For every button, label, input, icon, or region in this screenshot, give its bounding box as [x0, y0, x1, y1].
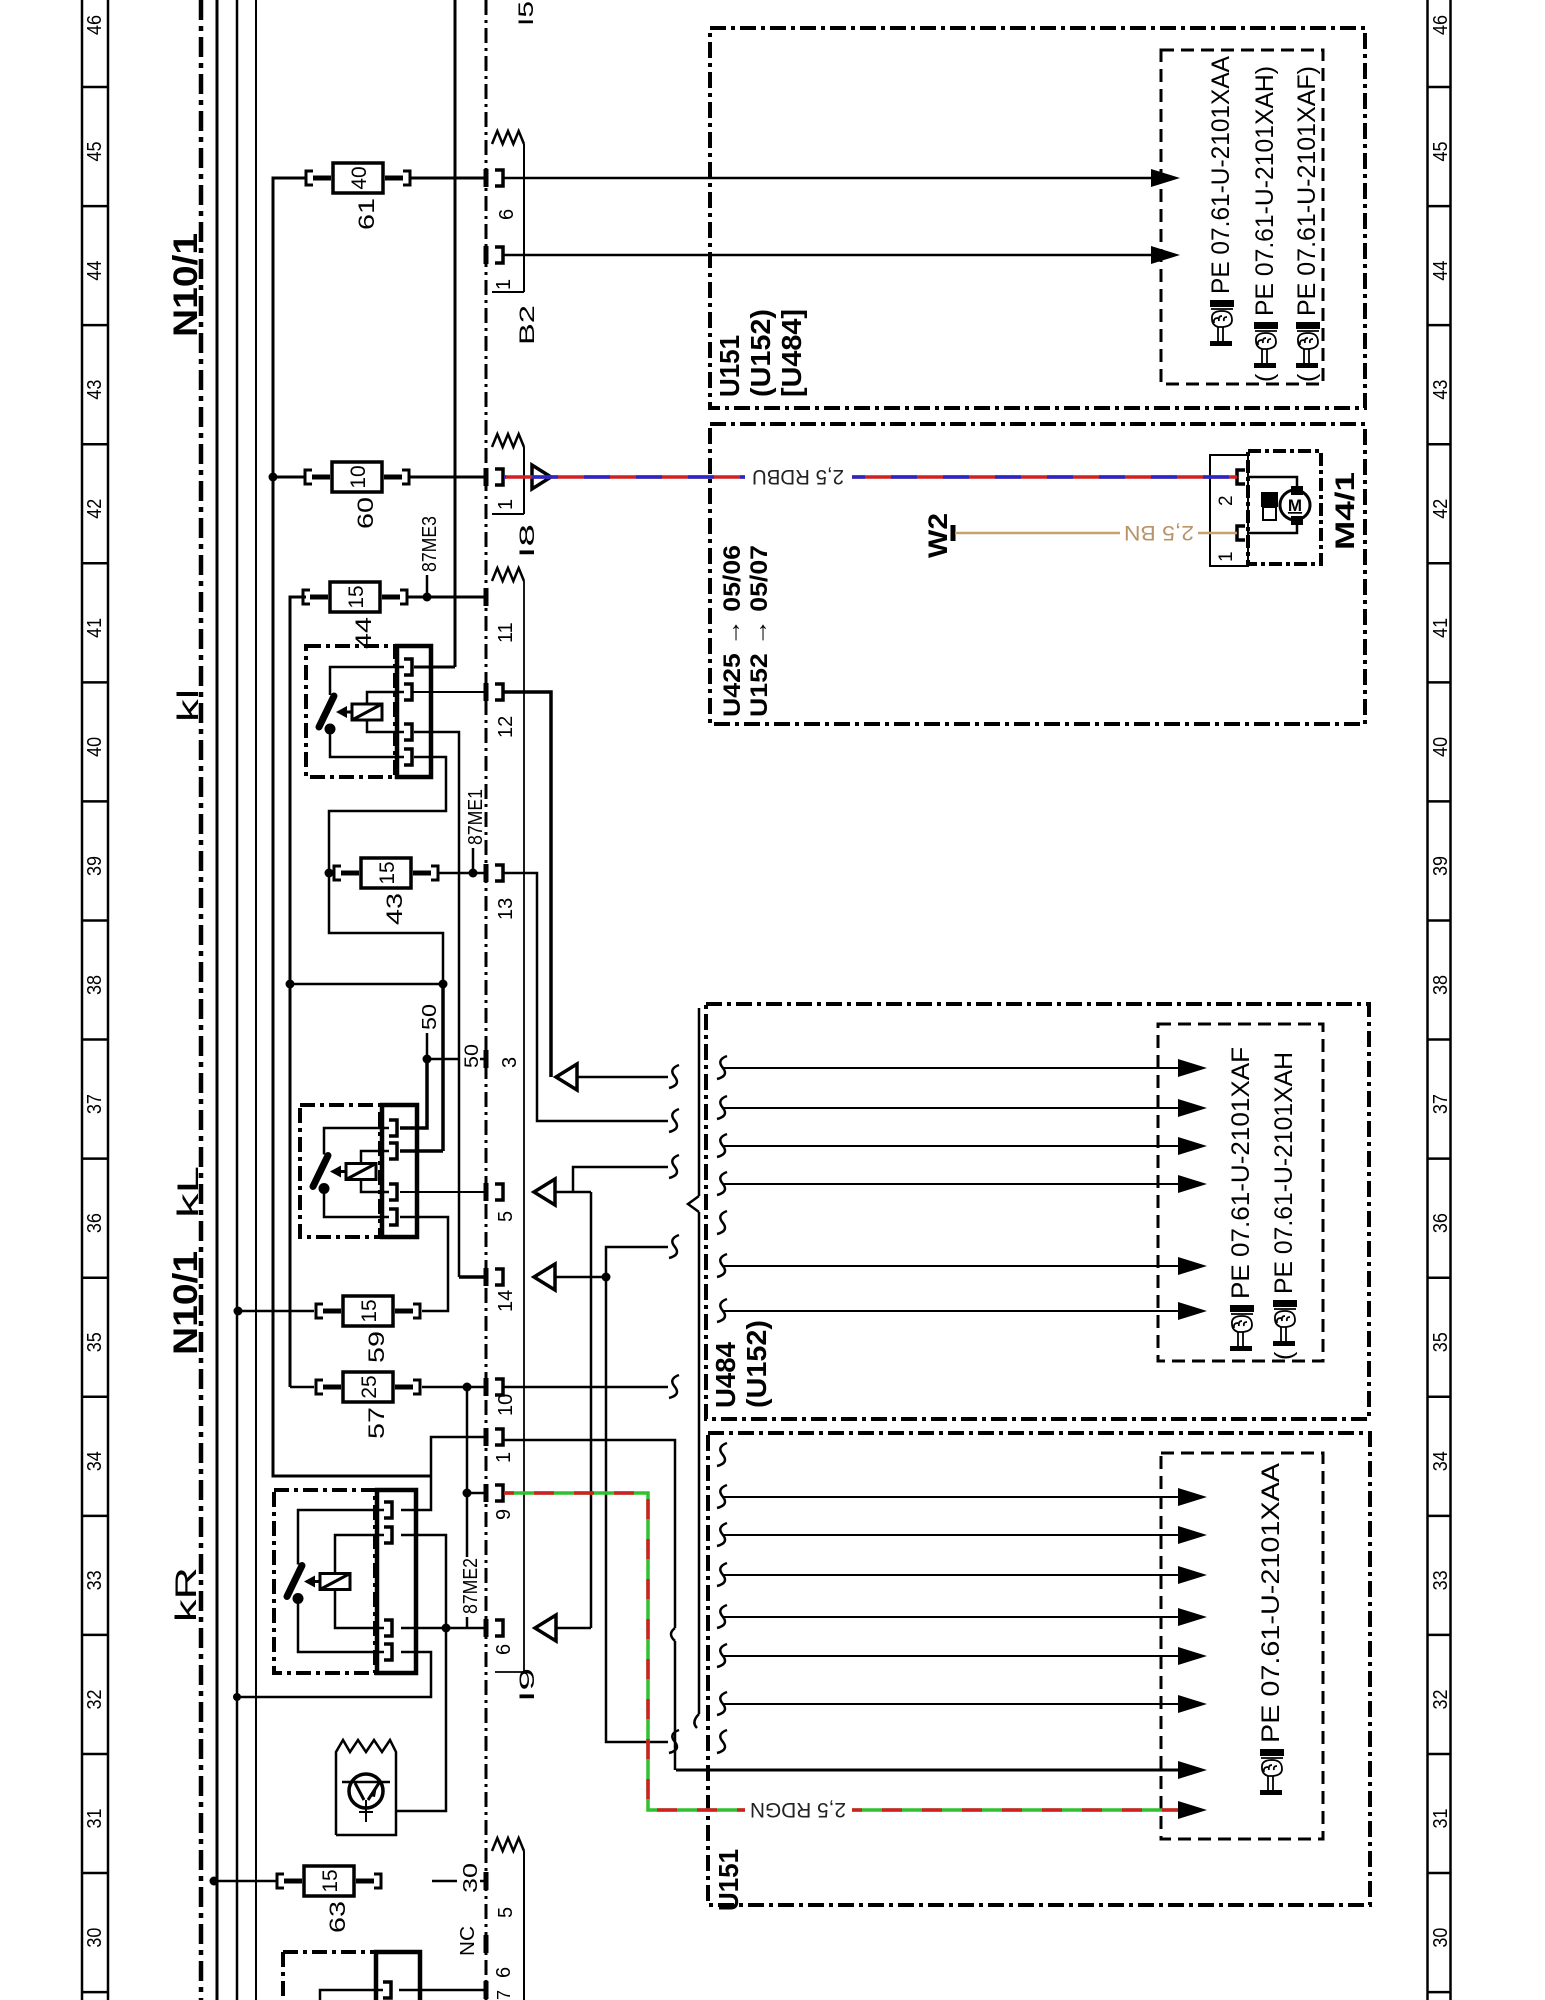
junction: [423, 1055, 432, 1064]
svg-text:10: 10: [347, 465, 370, 488]
svg-text:6: 6: [493, 1644, 515, 1655]
svg-text:PE 07.61-U-2101XAA: PE 07.61-U-2101XAA: [1207, 56, 1235, 294]
svg-text:I5: I5: [515, 1, 538, 26]
wire relay kL pin3 to I5 pin 5: [400, 1191, 486, 1193]
relay kR dash-dot box: [274, 1490, 375, 1673]
svg-text:15: 15: [319, 1869, 342, 1892]
svg-text:U484: U484: [710, 1342, 741, 1408]
relay kl coil wire to pin2: [367, 692, 404, 704]
connector I5/I9 bracket line: [523, 581, 525, 1672]
junction 87ME1: [469, 869, 478, 878]
svg-text:2,5 RDBU: 2,5 RDBU: [752, 465, 844, 488]
svg-text:14: 14: [495, 1290, 517, 1312]
svg-text:U151: U151: [713, 1849, 744, 1911]
svg-text:15: 15: [358, 1299, 381, 1322]
svg-text:M4/1: M4/1: [1330, 472, 1360, 550]
svg-text:44: 44: [84, 261, 106, 281]
wire fuse61 to B2 pin 6: [410, 177, 486, 180]
svg-text:30: 30: [84, 1928, 106, 1948]
bus wire 30 (left): [216, 0, 219, 2000]
relay kl switch pivot: [325, 724, 336, 735]
fuse 44 value 15: [303, 582, 407, 612]
relay kL pin 1: [389, 1120, 397, 1136]
wire fuse43 to I5 pin 13: [438, 872, 486, 875]
relay kl coil: [352, 704, 382, 720]
I9 pin 1: [484, 1428, 489, 1446]
wire relay kl pin2 to I5 pin 12: [413, 691, 486, 693]
svg-text:45: 45: [1430, 142, 1452, 162]
I5 pin 5: [484, 1183, 489, 1201]
svg-text:kR: kR: [170, 1567, 203, 1622]
wire kR drop to transistor: [396, 1628, 446, 1811]
svg-text:1: 1: [493, 1452, 515, 1463]
svg-text:PE 07.61-U-2101XAF: PE 07.61-U-2101XAF: [1227, 1047, 1255, 1299]
bottom connector zigzag: [492, 1838, 524, 1851]
wire to PE (U151) at y=1770 fed by harness trunk A: [676, 1769, 1180, 1772]
svg-text:kL: kL: [172, 1166, 205, 1218]
bus wire (right): [255, 0, 257, 2000]
PE reference box (U151) dashed border: [1161, 1453, 1323, 1839]
relay kR coil: [320, 1574, 350, 1590]
svg-text:35: 35: [1430, 1332, 1452, 1352]
svg-text:NC: NC: [457, 1926, 479, 1956]
net 87ME2 lower: [466, 1493, 469, 1557]
motor M4/1 circle: [1280, 490, 1310, 520]
harness trunk A lower: [674, 1641, 677, 1770]
wire to PE (U484) at y=1266: [722, 1265, 1180, 1267]
svg-text:6: 6: [493, 1967, 515, 1978]
I8 pin 1: [484, 468, 489, 486]
wire pin13 onward: [504, 873, 668, 1121]
relay kl pin 1: [404, 659, 412, 675]
svg-text:33: 33: [1430, 1570, 1452, 1590]
relay kl pin 3: [404, 724, 412, 740]
junction: [234, 1307, 243, 1316]
svg-text:M: M: [1288, 496, 1302, 515]
junction: [463, 1489, 472, 1498]
wire 2,5 RDGN: [504, 1493, 745, 1810]
svg-text:38: 38: [1430, 975, 1452, 995]
relay kl switch blade: [319, 696, 334, 727]
wire to PE (U151) at y=1656: [722, 1655, 1180, 1657]
relay kR switch pivot: [293, 1593, 304, 1604]
wire fuse60 left: [273, 476, 305, 479]
connector I8 bracket line: [523, 447, 525, 514]
vertical wire battery feed to relay kl pin1: [454, 0, 457, 667]
wire pin14 onward: [555, 1276, 606, 1279]
svg-text:41: 41: [84, 618, 106, 638]
svg-text:38: 38: [84, 975, 106, 995]
relay kL housing: [382, 1105, 417, 1237]
relay kR pin 1: [384, 1502, 392, 1518]
relay (bottom, cut off) housing: [376, 1952, 420, 2000]
wire to PE (U151) at y=1704: [722, 1703, 1180, 1705]
wire B2 pin1 to PE arrow: [504, 254, 1151, 257]
PE 07.61-U-2101XAH reference (top): [1251, 66, 1279, 382]
I5 pin 14: [484, 1268, 489, 1286]
svg-text:5: 5: [495, 1211, 517, 1222]
svg-text:59: 59: [364, 1331, 389, 1363]
svg-text:kl: kl: [172, 689, 205, 722]
motor M4/1 internal wires: [1247, 477, 1297, 490]
wire 50 to I5 pin 3: [427, 1058, 458, 1061]
svg-text:46: 46: [84, 15, 106, 35]
svg-text:39: 39: [84, 856, 106, 876]
svg-text:43: 43: [84, 380, 106, 400]
box U425/U152 dash-dot border: [710, 424, 1365, 724]
relay kL contact wire: [324, 1128, 389, 1155]
M4/1 pin 2: [1237, 470, 1245, 484]
harness trunk B: [698, 1008, 701, 1196]
svg-text:57: 57: [364, 1407, 389, 1439]
net stub 50: [426, 1033, 429, 1059]
box U151 (bottom) dash-dot border: [708, 1433, 1370, 1905]
fuse 43 value 15: [334, 858, 438, 888]
svg-text:63: 63: [325, 1901, 350, 1933]
svg-text:2,5 BN: 2,5 BN: [1124, 521, 1194, 544]
wire pin5 onward: [555, 1191, 591, 1194]
wire to PE (U484) at y=1068: [722, 1067, 1180, 1069]
M4/1 pin 1: [1237, 526, 1245, 540]
relay kL switch blade: [313, 1156, 328, 1187]
wire pin10 to U484: [504, 1386, 668, 1389]
B2 pin 1: [484, 246, 489, 264]
branch to U484: [606, 1247, 668, 1277]
junction: [439, 980, 448, 989]
svg-text:PE 07.61-U-2101XAH: PE 07.61-U-2101XAH: [1270, 1052, 1298, 1294]
junction: [286, 980, 295, 989]
wire bottom relay to pin 7: [399, 1989, 486, 1992]
bus wire (middle): [236, 0, 239, 2000]
net stub 87ME3: [426, 575, 429, 597]
svg-text:13: 13: [495, 898, 517, 920]
svg-text:43: 43: [382, 893, 407, 925]
connector B2 bracket line: [523, 144, 525, 292]
svg-text:42: 42: [1430, 499, 1452, 519]
box U484 (U152) dash-dot border: [706, 1004, 1369, 1419]
transistor emitter stem: [365, 1800, 367, 1822]
svg-text:15: 15: [376, 861, 399, 884]
I5 pin 12: [484, 683, 489, 701]
pin 6 NC: [484, 1935, 489, 1953]
svg-text:25: 25: [358, 1375, 381, 1398]
lone harness hook U151 mid: [717, 1730, 727, 1753]
svg-text:N10/1: N10/1: [167, 233, 205, 337]
wire relay kR pin2 drop: [401, 1535, 446, 1628]
wire fuse59 left to bus: [238, 1310, 314, 1313]
relay kR contact wire: [298, 1510, 384, 1565]
wire relay kR pin4 to bus: [237, 1652, 431, 1697]
wire relay kL pin4 to fuse59: [400, 1217, 448, 1311]
connector I5 pins zigzag: [492, 568, 524, 581]
svg-text:43: 43: [1430, 380, 1452, 400]
relay (bottom) internal wire: [320, 1990, 383, 2000]
wire fuse43 loop down: [329, 873, 443, 984]
svg-text:U425 → 05/06: U425 → 05/06: [719, 545, 746, 717]
direction triangle: [556, 1064, 577, 1090]
connector rail I5 dash-dot line: [485, 0, 488, 2000]
relay kl contact wire: [330, 667, 404, 695]
I5 pin 13: [484, 864, 489, 882]
svg-text:32: 32: [84, 1689, 106, 1709]
wire relay kl pin1: [414, 666, 455, 669]
wire pin6 link: [556, 1627, 591, 1630]
relay kL coil wire to pin3: [361, 1180, 389, 1193]
I9 pin 9: [484, 1484, 489, 1502]
svg-text:37: 37: [84, 1094, 106, 1114]
fuse 61 value 40: [306, 163, 410, 193]
svg-text:PE 07.61-U-2101XAH): PE 07.61-U-2101XAH): [1251, 66, 1279, 316]
connector I8 zigzag: [492, 434, 524, 447]
svg-text:11: 11: [495, 622, 517, 643]
svg-text:12: 12: [495, 716, 517, 738]
svg-text:PE 07.61-U-2101XAF): PE 07.61-U-2101XAF): [1293, 66, 1321, 316]
fuse 57 value 25: [316, 1372, 420, 1402]
wire fuse57 to I5 pin 10: [422, 1386, 486, 1389]
wire kL feed from crossover: [441, 984, 445, 1151]
svg-text:W2: W2: [923, 513, 953, 558]
wire crossover: [290, 983, 443, 986]
wire to PE (U151) at y=1617: [722, 1616, 1180, 1618]
module N10/1 boundary dash-dot line: [199, 0, 204, 2000]
svg-text:(: (: [1293, 373, 1321, 382]
wire to I5 pin 14: [459, 1275, 486, 1279]
lone harness hook U484: [717, 1211, 727, 1234]
junction 87ME3: [423, 593, 432, 602]
svg-text:1: 1: [1216, 551, 1237, 562]
svg-text:I9: I9: [516, 1668, 539, 1702]
fuse 60 value 10: [305, 462, 409, 492]
svg-text:46: 46: [1430, 15, 1452, 35]
svg-text:60: 60: [353, 497, 378, 529]
junction: [269, 473, 278, 482]
PE 07.61-U-2101XAF reference (U484): [1227, 1047, 1255, 1351]
relay kl pin 2: [404, 684, 412, 700]
junction: [210, 1877, 219, 1886]
relay kL dash-dot box: [300, 1105, 380, 1237]
svg-text:37: 37: [1430, 1094, 1452, 1114]
transistor Q1 internals: [342, 1781, 390, 1784]
svg-text:(U152): (U152): [745, 309, 776, 397]
relay kR coil wire to pin3: [335, 1590, 384, 1629]
svg-text:(: (: [1251, 373, 1279, 382]
PE reference box (top) dashed border: [1161, 50, 1323, 384]
direction triangle: [532, 465, 551, 489]
ruler band left: [82, 0, 108, 2000]
wire to PE (U151) at y=1497: [722, 1496, 1180, 1498]
svg-text:3: 3: [499, 1057, 521, 1068]
svg-text:B2: B2: [516, 305, 539, 345]
wire fuse60 to I8 pin 1: [409, 476, 486, 479]
relay kR coil wire to pin2: [335, 1535, 384, 1574]
svg-text:41: 41: [1430, 618, 1452, 638]
motor M4/1 brush block: [1261, 492, 1278, 507]
svg-text:40: 40: [84, 737, 106, 757]
wire relay kL pin2: [400, 1149, 443, 1153]
relay kR pin 3: [384, 1620, 392, 1636]
relay kR switch blade: [287, 1566, 302, 1597]
wire from 87ME2 to pin 9: [467, 1492, 486, 1495]
junction: [325, 869, 334, 878]
junction: [602, 1273, 611, 1282]
svg-text:6: 6: [496, 209, 518, 220]
svg-text:U151: U151: [714, 335, 745, 397]
svg-text:50: 50: [462, 1044, 483, 1068]
relay kL pin 3: [389, 1184, 397, 1200]
wire to PE (U484) at y=1311: [722, 1310, 1180, 1312]
svg-text:40: 40: [348, 166, 371, 189]
relay kR housing: [377, 1490, 416, 1673]
wire fuse57 left: [290, 1386, 314, 1389]
direction triangle: [534, 1264, 555, 1290]
svg-text:N10/1: N10/1: [167, 1251, 205, 1355]
relay kl housing: [397, 646, 431, 777]
junction 87ME2 top: [463, 1383, 472, 1392]
svg-text:50: 50: [419, 1004, 441, 1030]
svg-text:(U152): (U152): [741, 1320, 772, 1408]
relay kL pivot wire to pin4: [324, 1189, 389, 1218]
direction triangle: [535, 1615, 556, 1641]
wire to PE (U151) at y=1535: [722, 1534, 1180, 1536]
wire fuse61 feed riser (terminal 30 feed): [273, 178, 431, 1476]
svg-text:30: 30: [460, 1863, 482, 1893]
direction triangle: [534, 1179, 555, 1205]
wire to PE (U484) at y=1108: [722, 1107, 1180, 1109]
branch to U484: [573, 1167, 668, 1192]
pin 5 (30): [484, 1872, 489, 1890]
transistor Q1 circle: [349, 1774, 383, 1808]
svg-text:PE 07.61-U-2101XAA: PE 07.61-U-2101XAA: [1257, 1463, 1285, 1743]
svg-text:87ME2: 87ME2: [460, 1558, 482, 1614]
bottom connector bracket line: [523, 1851, 525, 2000]
wire relay kR pin3 to pin 6: [401, 1627, 486, 1630]
relay kR coil arrow: [313, 1580, 320, 1583]
svg-text:30: 30: [1430, 1928, 1452, 1948]
motor M4/1 dash-dot box: [1248, 451, 1321, 564]
fuse 59 value 15: [316, 1296, 420, 1326]
svg-text:31: 31: [1430, 1809, 1452, 1829]
svg-text:39: 39: [1430, 856, 1452, 876]
connector B2 zigzag: [492, 131, 524, 144]
svg-text:61: 61: [354, 198, 379, 230]
relay kl pivot wire to pin4: [330, 729, 404, 757]
svg-text:5: 5: [495, 1907, 517, 1918]
wire fuse43 left: [329, 872, 334, 875]
svg-text:34: 34: [84, 1451, 106, 1471]
relay kR pin 4: [384, 1644, 392, 1660]
relay kl coil arrow: [345, 711, 352, 714]
svg-text:40: 40: [1430, 737, 1452, 757]
relay kR pin 2: [384, 1527, 392, 1543]
svg-text:1: 1: [495, 499, 517, 510]
relay kl coil wire to pin3: [367, 720, 404, 732]
ruler band right: [1428, 0, 1451, 2000]
relay kL coil arrow: [339, 1170, 346, 1173]
wire pin12 onward: [504, 692, 551, 1077]
M4/1 connector box: [1210, 455, 1248, 566]
wire to PE (U151) at y=1575: [722, 1574, 1180, 1576]
wire fuse44 left riser: [290, 597, 306, 1387]
relay kl dash-dot box: [306, 646, 395, 777]
svg-text:10: 10: [495, 1394, 517, 1416]
wire relay kl pin4 to fuse43: [329, 757, 446, 873]
wire pin14 drop to U151: [606, 1277, 668, 1742]
svg-text:87ME1: 87ME1: [465, 789, 487, 845]
wire fuse63 left to bus: [213, 1880, 277, 1883]
PE 07.61-U-2101XAA reference (top): [1207, 56, 1235, 346]
wire pin5-pin6 link: [590, 1192, 593, 1628]
svg-text:1: 1: [493, 279, 515, 290]
PE 07.61-U-2101XAF reference (top): [1293, 66, 1321, 382]
svg-text:15: 15: [345, 585, 368, 608]
relay kL pin 4: [389, 1209, 397, 1225]
relay kR pivot wire to pin4: [298, 1599, 384, 1653]
wire 2,5 RDBU: [504, 475, 745, 479]
pin 7: [484, 1981, 489, 1999]
junction: [442, 1624, 451, 1633]
ground W2: [951, 525, 956, 541]
svg-text:2: 2: [1216, 495, 1237, 506]
wire B2 pin6 to PE arrow: [504, 177, 1151, 180]
svg-text:(: (: [1270, 1351, 1298, 1360]
relay kL switch pivot: [319, 1183, 330, 1194]
wire to PE (U484) at y=1184: [722, 1183, 1180, 1185]
wire to U484: [577, 1076, 668, 1079]
svg-text:32: 32: [1430, 1689, 1452, 1709]
lone harness hook U151 top: [717, 1443, 727, 1466]
wire to PE (U484) at y=1146: [722, 1145, 1180, 1147]
wire relay kL pin1 riser: [400, 1059, 427, 1128]
relay (bottom, cut off) dash-dot box: [283, 1952, 374, 2000]
svg-text:33: 33: [84, 1570, 106, 1590]
relay kL pin 2: [389, 1143, 397, 1159]
relay kL coil wire to pin2: [361, 1151, 389, 1164]
relay kL coil: [346, 1164, 376, 1180]
wire fuse44 to I5 pin 11: [407, 596, 486, 599]
svg-text:42: 42: [84, 499, 106, 519]
svg-text:35: 35: [84, 1332, 106, 1352]
svg-text:44: 44: [1430, 261, 1452, 281]
svg-text:7: 7: [494, 1990, 514, 2000]
svg-text:9: 9: [493, 1509, 515, 1520]
PE reference box (U484) dashed border: [1158, 1024, 1323, 1361]
I9 pin 6: [484, 1619, 489, 1637]
B2 pin 6: [484, 169, 489, 187]
I5 pin 3: [484, 1050, 489, 1068]
wire pin1 to harness trunk A: [504, 1440, 675, 1628]
net 87ME2 riser: [466, 1387, 469, 1493]
wire relay kl pin3 riser: [414, 732, 459, 1277]
svg-text:2,5 RDGN: 2,5 RDGN: [750, 1798, 846, 1821]
svg-text:U152 → 05/07: U152 → 05/07: [746, 545, 773, 717]
wire relay kR pin1 to pin 1: [401, 1437, 486, 1510]
wire fuse63 to pin 5: [432, 1880, 457, 1883]
electronic unit (cut) box with torn edge: [336, 1740, 396, 1835]
box U151/U152/U484 (top) dash-dot border: [710, 28, 1365, 408]
junction: [233, 1693, 241, 1701]
svg-text:87ME3: 87ME3: [419, 516, 441, 572]
svg-text:31: 31: [84, 1809, 106, 1829]
svg-text:34: 34: [1430, 1451, 1452, 1471]
wire 2,5 BN from W2 to M4/1 pin 1: [955, 532, 1120, 535]
svg-text:36: 36: [1430, 1213, 1452, 1233]
fuse 63 value 15: [277, 1866, 381, 1896]
svg-text:36: 36: [84, 1213, 106, 1233]
net stub 87ME1: [472, 848, 475, 873]
I5 pin 11: [484, 588, 489, 606]
svg-text:[U484]: [U484]: [776, 309, 807, 397]
svg-text:45: 45: [84, 142, 106, 162]
